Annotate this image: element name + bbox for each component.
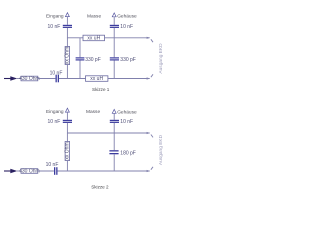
capacitor C4 330 pF — [110, 57, 119, 60]
tick mark at top output — [151, 39, 153, 42]
wire bottom rail right segment — [108, 78, 150, 80]
svg-text:330 pF: 330 pF — [120, 57, 136, 63]
svg-text:xx uH: xx uH — [87, 35, 100, 41]
wire C7 down crossing rail to C8 — [113, 123, 115, 150]
svg-text:Masse: Masse — [87, 13, 101, 19]
capacitor C1 10 nF — [63, 25, 72, 28]
svg-text:430 Ohm: 430 Ohm — [19, 76, 40, 82]
wire C2 down crossing top rail to C4 — [113, 28, 115, 57]
wire top rail right segment — [105, 37, 150, 39]
tick mark at bottom output 2 — [151, 167, 153, 170]
wire C3 to bottom rail — [79, 61, 81, 79]
svg-text:Skizze 2: Skizze 2 — [91, 184, 109, 189]
wire arrow to R 430 — [17, 78, 21, 80]
wire bottom rail left segment — [59, 78, 86, 80]
wire C4 to bottom rail — [113, 61, 115, 79]
capacitor C2 10 nF — [110, 25, 119, 28]
svg-text:430 Ohm: 430 Ohm — [19, 168, 40, 174]
svg-text:Ausgang EKD: Ausgang EKD — [158, 43, 164, 74]
svg-text:180 pF: 180 pF — [120, 150, 136, 156]
wire R 430 to C9 — [38, 170, 54, 172]
svg-text:xx Ohm: xx Ohm — [65, 47, 71, 64]
tick mark at bottom output — [151, 74, 153, 77]
svg-text:Gehäuse: Gehäuse — [117, 109, 137, 115]
wire branch top rail to C3 — [79, 38, 81, 58]
capacitor C9 10 nF series — [54, 167, 58, 175]
resistor 430 Ohm (2) — [19, 168, 40, 174]
capacitor C6 10 nF — [63, 120, 72, 123]
wire R1 to bottom rail — [66, 65, 68, 79]
capacitor C3 330 pF — [76, 57, 85, 60]
wire node B to R2 — [66, 133, 68, 142]
input arrow 2 (bottom left) — [4, 169, 17, 173]
wire node A to R1 — [66, 38, 68, 47]
arrowhead top rail 2 output — [147, 132, 151, 134]
wire R 430 to C5 — [38, 78, 56, 80]
svg-text:Masse: Masse — [86, 109, 100, 115]
wire Eingang to C6 — [66, 112, 68, 120]
svg-text:10 nF: 10 nF — [48, 24, 61, 30]
wire Eingang to C1 — [66, 17, 68, 25]
resistor R1 xx Ohm — [65, 47, 71, 65]
connector triangle (Gehaeuse) — [112, 13, 116, 17]
wire Gehaeuse to C2 — [113, 17, 115, 25]
input arrow (bottom left) — [4, 76, 17, 80]
wire C8 to bottom rail 2 — [113, 154, 115, 171]
svg-text:Skizze 1: Skizze 1 — [92, 87, 110, 92]
wire top rail 2 — [67, 132, 149, 134]
inductor L2 xx uH — [86, 76, 108, 82]
svg-text:330 pF: 330 pF — [85, 57, 101, 63]
wire Gehaeuse 2 to C7 — [113, 113, 115, 120]
svg-text:Ausgang EKD: Ausgang EKD — [158, 134, 164, 165]
tick mark at top output 2 — [151, 135, 153, 138]
arrowhead top rail output — [147, 37, 151, 39]
resistor 430 Ohm — [19, 76, 40, 82]
svg-text:10 nF: 10 nF — [120, 24, 133, 30]
svg-text:10 nF: 10 nF — [120, 119, 133, 125]
connector triangle (Eingang input) — [65, 13, 69, 17]
capacitor C8 180 pF — [109, 150, 118, 154]
wire R2 to bottom rail 2 — [66, 161, 68, 172]
inductor L1 xx uH — [83, 35, 105, 41]
wire top rail left segment — [67, 37, 83, 39]
svg-text:xx uH: xx uH — [90, 76, 103, 82]
wire C1 to node A — [66, 28, 68, 38]
svg-text:Eingang: Eingang — [46, 109, 64, 115]
wire arrow to R 430 (2) — [17, 170, 21, 172]
wire bottom rail 2 — [58, 170, 150, 172]
capacitor C5 10 nF series — [56, 75, 60, 83]
svg-text:Gehäuse: Gehäuse — [117, 13, 137, 19]
svg-text:xx Ohm: xx Ohm — [65, 142, 71, 159]
svg-text:10 nF: 10 nF — [48, 119, 61, 125]
connector triangle (Gehaeuse 2) — [112, 109, 116, 113]
resistor R2 xx Ohm — [65, 142, 71, 161]
arrowhead bottom rail output — [147, 77, 151, 79]
capacitor C7 10 nF — [110, 120, 119, 123]
wire C6 to node B — [66, 123, 68, 133]
arrowhead bottom rail 2 output — [147, 170, 151, 172]
svg-text:Eingang: Eingang — [46, 13, 64, 19]
connector triangle (Eingang input 2) — [65, 108, 69, 112]
